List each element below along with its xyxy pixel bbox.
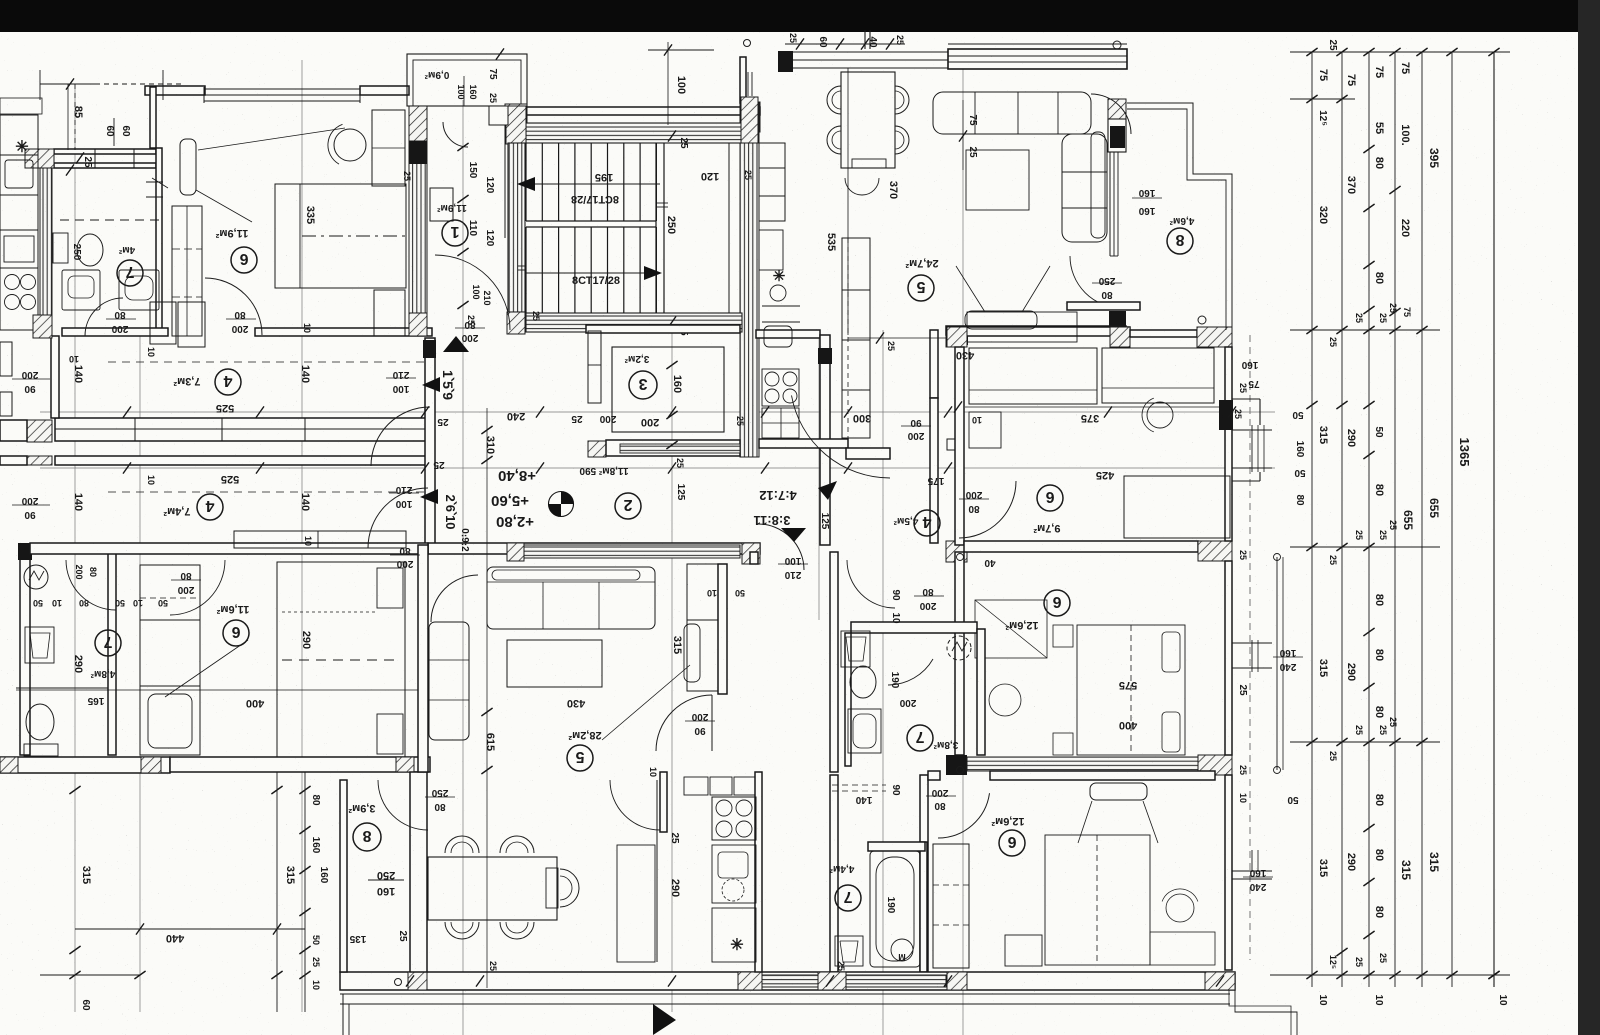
bath3 top wall — [586, 325, 740, 333]
vertical reference line E — [882, 330, 884, 1035]
room6b bottom wall y=755 hatched band — [967, 757, 1198, 771]
ladder cluster y330 — [1290, 329, 1440, 331]
entry hall left wall lower part — [425, 338, 435, 545]
bath38 door arc — [888, 659, 933, 685]
kitchen sink left — [5, 160, 33, 188]
room 6 circle lower-left — [223, 620, 249, 646]
ladder bottom cluster — [1270, 974, 1510, 976]
hatch pier bottom-left corner — [0, 757, 18, 773]
bath38 right wall — [977, 629, 985, 755]
chain top-left 85 — [40, 83, 95, 85]
corridor right wall mid (bath38 left) — [830, 552, 838, 772]
hatched pier bottom-left x=408 side — [396, 757, 414, 772]
bath3 left closet column — [588, 331, 601, 403]
bed lower-left room — [277, 562, 405, 757]
stair left wall striped — [508, 143, 525, 312]
triangle landing lower — [420, 489, 438, 504]
small circle vent — [744, 40, 751, 47]
nightstand below bed — [374, 290, 405, 336]
wardrobe dashed room6b — [975, 600, 1047, 658]
left edge fixtures neighbor — [0, 342, 12, 376]
stair top-right hatched pier — [741, 97, 758, 143]
upper wall inner line — [55, 428, 430, 430]
washbasin unit upper-left — [62, 270, 100, 310]
wardrobe right living bottom — [687, 564, 718, 691]
ladder overall line 1365 — [1493, 52, 1495, 987]
dim line 615/310 vertical — [486, 408, 488, 988]
stair tick 25 top — [668, 130, 676, 141]
bath3 bottom wall stripes — [620, 444, 740, 453]
chain x=75 lower — [69, 786, 80, 794]
tv diagonals living — [956, 266, 985, 312]
chain 615 vertical ticks — [481, 708, 492, 716]
room 6c circle — [999, 830, 1025, 856]
door arc hall to bedroom6 upper-left — [205, 278, 262, 335]
wall top right segment bedroom — [360, 86, 409, 95]
right wall windows mid — [1251, 640, 1253, 672]
wardrobe upper-left room — [172, 206, 202, 336]
hall closet above bedroom — [234, 531, 406, 548]
right exterior wall lower — [1225, 775, 1232, 970]
corridor top wall center — [756, 330, 820, 338]
black pier living bottom left — [946, 328, 968, 345]
window sill connectors right upper — [1232, 429, 1272, 431]
kitchen center stove — [762, 369, 799, 406]
dining table bottom — [428, 857, 557, 920]
dim line 400 bedroom — [16, 689, 425, 691]
vertical reference line H — [139, 335, 141, 1012]
stair well right boundary — [728, 143, 730, 313]
bed upper-left bedroom — [275, 184, 406, 288]
stair rail vertical — [655, 143, 657, 313]
wardrobe column lower-left — [140, 565, 200, 755]
room 5 circle upper — [908, 275, 934, 301]
ladder vertical lines — [1311, 52, 1313, 987]
hatched pier corridor bottom left — [507, 543, 524, 561]
kitchen tall counter column — [842, 238, 870, 438]
balcony bottom-left edge lines — [340, 993, 1230, 995]
chain x=305 lower ticks — [299, 786, 310, 794]
entry vertical chain — [462, 120, 464, 335]
wall living/corridor mid — [718, 564, 727, 694]
chain 60/60 left — [113, 118, 115, 146]
door arc bath38 inner — [847, 560, 895, 608]
door arc bath 4,8 lower-left — [66, 560, 116, 610]
left block small shelves — [0, 98, 42, 114]
chain stub left of living bottom wall — [848, 337, 946, 339]
kitchen stove circles left — [5, 275, 20, 290]
kitchen divider lines left — [0, 154, 38, 156]
ladder mid ticks upper — [1363, 145, 1374, 153]
stair walk line lower with arrow — [526, 272, 655, 274]
corridor left wall mid upper — [750, 552, 758, 564]
lower horizontal chain labels — [123, 462, 131, 473]
radiator right wall living — [1091, 132, 1105, 238]
fixture2 upper-left bath — [119, 270, 159, 310]
vertical reference line D — [818, 335, 820, 620]
balcony triangle bottom — [653, 1004, 676, 1035]
benchmark symbol — [549, 492, 574, 517]
bath lower-left: wc tank — [24, 744, 58, 756]
room 7 circle bottom — [835, 885, 861, 911]
left hall bottom wall upper (thick) — [55, 418, 430, 441]
room 8 circle top-right — [1167, 228, 1193, 254]
dining table upper right — [841, 72, 895, 168]
stair treads lower flight — [525, 227, 527, 313]
kitchen strip sink unit — [762, 305, 800, 307]
bottom wall inner hatch mid — [760, 975, 946, 987]
pier entry hall left wall top — [423, 340, 436, 358]
wardrobe bottom-right — [933, 844, 969, 968]
kitchen fridge left — [4, 236, 34, 262]
room6a top wall (y=327) — [955, 327, 1130, 336]
hatched pier corridor bottom right — [742, 543, 760, 564]
hatched pier stair top-right — [740, 102, 760, 132]
black pier center wall top — [818, 348, 832, 364]
bed head diagonals bottom-right — [1078, 801, 1092, 843]
door living corridor arc — [656, 695, 712, 751]
counter right room6a — [1102, 348, 1214, 403]
living room right wall black pier — [1110, 126, 1125, 148]
wall bedroom/bath divider upper-left — [62, 328, 168, 336]
stair porch step box — [489, 106, 508, 125]
bath44 M machine — [891, 939, 913, 961]
living room right wall upper hatch pier — [1108, 99, 1126, 119]
radiator left bedroom — [180, 139, 196, 195]
hatch pier hall top-left — [33, 315, 52, 338]
top black scan bar — [0, 0, 1600, 32]
triangle marker down — [781, 528, 806, 542]
door living to room8 arc — [1070, 256, 1122, 308]
dim drop line 85 — [67, 84, 69, 150]
lower wall extension to edge — [0, 456, 27, 465]
vertical reference line G — [74, 84, 76, 1012]
bath38 sink — [841, 631, 870, 667]
nightstand above bed — [372, 110, 405, 186]
living room right window — [1109, 152, 1111, 256]
dashed hall line upper — [108, 361, 425, 363]
hatched pier left kitchen — [25, 149, 54, 168]
washing machine circle lower-left — [24, 565, 48, 589]
counter left room6a — [969, 348, 1097, 404]
bed bottom-right — [1045, 835, 1150, 965]
bath3 bottom wall — [606, 440, 740, 456]
coffee table living — [966, 150, 1029, 210]
room 6 circle upper-left — [231, 247, 257, 273]
bath44 top wall — [868, 842, 925, 851]
triangle marker right — [818, 481, 837, 500]
hatched pier stair top-left — [505, 104, 527, 132]
kitchen counter strip left — [0, 115, 38, 330]
door arc room4 right apt — [959, 481, 1016, 538]
left hall left wall vertical — [51, 336, 59, 418]
bottom-left apartment bottom wall — [0, 757, 170, 773]
wall right of corridor x=930 upper — [930, 330, 938, 398]
room 2 circle — [615, 493, 641, 519]
door arc kitchen bottom — [610, 780, 660, 830]
bottom-left wall right segment — [170, 757, 430, 772]
nightstand left of bed — [1005, 935, 1042, 966]
WC room right wall x=410 with pier — [410, 772, 427, 972]
dining chairs upper right — [827, 86, 841, 114]
room 7 circle mid — [907, 725, 933, 751]
pier hatch top of divider — [409, 106, 427, 141]
door arc entry hall bottom — [435, 255, 510, 330]
ladder cluster y742 — [1290, 741, 1440, 743]
closet niche above hall — [150, 302, 176, 344]
horizontal chain line upper — [40, 411, 1275, 413]
room 7 circle lower-left — [95, 630, 121, 656]
bed centerline dashdot — [302, 235, 406, 237]
bed headboard shelf bottom-right — [1090, 783, 1147, 800]
hatched pier at 946,541 — [946, 541, 967, 562]
bay step lines right — [1232, 398, 1260, 400]
loggia vertical lines right — [1276, 557, 1278, 770]
room 4 circle right apt — [914, 510, 940, 536]
bath right wall — [156, 148, 162, 335]
center vertical wall x=820 — [820, 335, 830, 545]
armchair half-round — [845, 178, 879, 195]
top chain center 25/60/40/25 — [785, 43, 905, 45]
room 8 circle bottom — [353, 823, 381, 851]
sofa living bottom horizontal — [487, 567, 655, 629]
chain 310/240 mid — [481, 426, 492, 434]
wall bottom of bedroom 6 upper-left — [255, 328, 432, 336]
tv cabinet living bottom — [965, 311, 1037, 329]
hatch pier bottom-left x=141 — [141, 757, 161, 773]
diagonal pointer bedroom — [198, 128, 345, 150]
kitchen counter strip mid — [617, 845, 655, 962]
black pier bottom x=1205 — [1205, 972, 1235, 990]
dining chairs bottom lower row — [445, 922, 479, 939]
sofa L corner — [1091, 94, 1131, 134]
hatch pier left end upper wall — [27, 420, 52, 442]
bath38 shower — [848, 709, 881, 753]
bath top wall jambs — [94, 149, 96, 168]
entry door arc top — [443, 122, 468, 147]
ladder bottom extra ticks — [1488, 971, 1499, 979]
window sill connectors right mid — [1232, 642, 1272, 644]
vertical reference line F — [962, 55, 964, 1035]
corridor bottom wall striped part — [520, 545, 740, 558]
porch box top of entry — [407, 54, 527, 106]
horizontal chain line lower — [40, 467, 1275, 469]
stair left bottom hatched pier — [507, 312, 525, 334]
circle top right corner living — [1113, 41, 1121, 49]
wall step at room4 entry — [947, 439, 955, 450]
living room top-left corner vertical — [740, 57, 746, 103]
stair tread tick marks — [518, 265, 526, 267]
balcony bottom-right outline — [1235, 990, 1297, 1035]
nightstand room6a — [969, 412, 1001, 448]
bed room6b pillows — [1162, 632, 1180, 672]
bottom-right room left wall — [920, 775, 928, 972]
kitchen right wall x=755 — [755, 772, 762, 972]
left exterior wall lower apartment — [20, 545, 30, 755]
room6b left wall — [955, 552, 964, 755]
lower-left room divider bath/bed — [108, 545, 116, 755]
stair top-left hatched pier — [506, 106, 526, 144]
kitchen/bath party wall striped — [40, 168, 52, 330]
stair treads upper flight — [525, 143, 527, 221]
kitchen bottom wall step — [846, 448, 890, 459]
bottom chain ticks — [406, 975, 414, 986]
corridor left wall x=660 — [660, 772, 667, 832]
spur wall to balcony right — [1130, 330, 1197, 337]
right exterior wall upper — [1225, 347, 1232, 541]
chain 100 upper right — [648, 49, 714, 51]
bed pillow divider — [299, 184, 301, 288]
kitchen top row squares — [684, 777, 708, 795]
bath44 tub — [870, 851, 920, 967]
bed diagonal pointer lower-left — [165, 640, 248, 697]
dashed line across bath upper-left — [60, 219, 160, 221]
door arc bath7 upper-left — [85, 298, 123, 336]
diagonal pointer living bottom — [602, 665, 690, 740]
hatched pier room6a top left — [947, 327, 967, 347]
ladder cluster y545 — [1290, 546, 1440, 548]
hatched pier at 1197 — [1197, 327, 1232, 347]
hatched pier bottom x=740 — [738, 972, 762, 990]
door arc WC room8 bottom — [378, 780, 428, 830]
dining chairs bottom top row — [445, 836, 479, 853]
balcony bottom-left outline — [342, 994, 344, 1035]
right exterior wall mid — [1225, 561, 1232, 755]
pier hatch bottom of divider — [409, 313, 427, 336]
wall right of bedroom 6 block / entry hall divider (striped) — [409, 106, 427, 336]
triangle landing left — [422, 377, 440, 392]
room 7 circle upper — [117, 260, 143, 286]
bath44/room6c divider vertical — [920, 842, 927, 972]
hatched pier at 946,330 — [946, 327, 967, 347]
living room right wall pier box — [1108, 119, 1126, 152]
upper wall joint lines — [134, 418, 136, 441]
dashed vertical top-left — [74, 84, 76, 150]
bedroom door arc bottom right — [938, 793, 990, 838]
living room top window left — [793, 51, 948, 53]
bath lower-left: sink — [25, 627, 54, 663]
black pier living bottom right — [1109, 311, 1126, 333]
window top bedroom upper-left — [204, 88, 360, 90]
vertical reference line C — [671, 330, 673, 1012]
room 6b circle — [1044, 590, 1070, 616]
sofa room6a top — [967, 312, 1077, 342]
bottom right room top wall — [990, 771, 1215, 780]
WC room left wall x=340 — [340, 780, 347, 972]
fan circle room6a — [1147, 402, 1173, 428]
living room top wall thick right — [948, 49, 1127, 69]
kitchen center grid boxes — [762, 408, 799, 438]
sofa living bottom vertical — [429, 622, 469, 740]
right wall windows upper — [1251, 425, 1253, 472]
kitchen strip stove circle — [770, 285, 786, 301]
kitchen bottom fridge — [712, 908, 756, 962]
bath top wall lower pair — [54, 163, 156, 168]
kitchen bottom appliances — [712, 797, 756, 840]
room 5 circle bottom — [567, 745, 593, 771]
bottom wall small circle — [395, 979, 402, 986]
black pier bottom x=830 — [818, 972, 846, 990]
roof overhang line above top wall — [948, 43, 1127, 45]
room 4 circle upper — [215, 369, 241, 395]
kitchen center sink — [764, 326, 792, 347]
stair tick 25 bottom — [668, 316, 676, 327]
bed room6b — [1077, 625, 1185, 755]
bath3 bottom pier — [588, 441, 606, 457]
bath divider line lower-left — [16, 687, 108, 689]
black pier left wall top — [18, 543, 32, 560]
right black scan strip — [1578, 0, 1600, 1035]
right wall windows lower — [1251, 850, 1253, 872]
chain 25 left — [76, 152, 84, 163]
chain 440 line bottom-left — [75, 928, 305, 930]
vertical reference line B — [462, 100, 464, 1035]
bath38 left wall — [845, 633, 851, 766]
triangle landing up — [443, 336, 469, 352]
stair walk line upper with arrow — [526, 183, 660, 185]
diagonal pointer bedroom 2 — [196, 190, 252, 222]
party wall left of living — [418, 545, 428, 772]
vertical reference line A — [301, 60, 303, 1012]
wall top of bedroom 6 upper-left — [145, 86, 205, 95]
stair bottom wall striped — [526, 313, 742, 332]
ladder mid ticks y400-500 — [1363, 401, 1374, 409]
dashed face line right rooms — [1249, 335, 1251, 960]
stair top wall striped — [526, 123, 742, 143]
dashed hall line lower apt — [108, 491, 425, 493]
small circle bottom room8 — [1198, 316, 1206, 324]
bath lower-left: wc bowl — [26, 704, 54, 740]
balcony outline top-right — [1127, 103, 1232, 330]
pier black on divider — [409, 141, 427, 164]
dim line 375 room6a — [965, 406, 1232, 408]
living bottom wall — [946, 326, 1126, 335]
bath44 sink — [835, 936, 863, 966]
chain x=277/305 lower lines — [276, 772, 278, 1012]
room6a left wall — [955, 347, 964, 545]
dining chair right — [560, 869, 579, 907]
bath top wall upper pair — [54, 149, 156, 154]
ladder top second ticks — [1306, 95, 1317, 103]
vertical wall x=655 kitchen edge — [656, 780, 658, 962]
stair right wall striped (to kitchen) — [740, 102, 759, 457]
bath3 inner rect — [612, 347, 724, 432]
wall below door living room — [1067, 302, 1140, 310]
bottom right room top wall stub — [928, 771, 940, 780]
black shaft block left of window — [778, 51, 793, 72]
nightstands room6b — [1053, 625, 1073, 647]
bath38 top wall — [851, 622, 977, 633]
dim line 535 living — [847, 68, 849, 335]
bed room6b centerline — [1130, 625, 1132, 755]
bath38 washing machine circle — [947, 636, 971, 660]
kitchen bottom sink — [712, 845, 756, 903]
bed room6a lower — [1124, 476, 1230, 538]
mid vertical chain x=672 — [666, 361, 677, 369]
living room left shaft wall — [864, 30, 866, 49]
hatched pier bottom x=408 — [408, 972, 427, 990]
door arc lower-left apartment hall — [368, 488, 428, 548]
bottom rooms bath divider — [830, 775, 838, 972]
stair top wall — [505, 107, 760, 115]
bath door jamb marks — [146, 181, 163, 183]
kitchen bottom wall center apt — [759, 439, 848, 448]
wall left vertical of bedroom 6 upper-left — [150, 87, 156, 148]
ladder top boundary ticks — [1290, 51, 1510, 53]
corridor bottom wall (room2/room5 divider) — [428, 543, 760, 554]
room 1 circle entry — [442, 220, 468, 246]
sofa L vertical part — [1062, 134, 1107, 242]
